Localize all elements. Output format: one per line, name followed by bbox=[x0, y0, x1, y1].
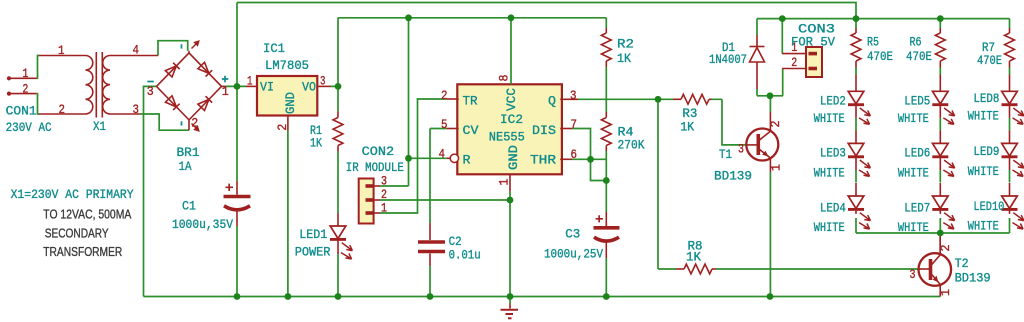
svg-text:R2: R2 bbox=[617, 37, 634, 52]
svg-text:LED3: LED3 bbox=[820, 146, 846, 161]
svg-text:7: 7 bbox=[571, 117, 578, 132]
svg-text:470E: 470E bbox=[906, 49, 932, 64]
svg-text:CON2: CON2 bbox=[362, 144, 395, 159]
svg-text:1: 1 bbox=[247, 74, 253, 89]
svg-text:LED5: LED5 bbox=[904, 94, 930, 109]
svg-text:C3: C3 bbox=[565, 227, 580, 242]
svg-text:R: R bbox=[463, 153, 471, 168]
svg-text:SECONDARY: SECONDARY bbox=[45, 227, 110, 241]
svg-text:2: 2 bbox=[791, 55, 797, 70]
svg-text:2: 2 bbox=[938, 245, 953, 252]
svg-text:6: 6 bbox=[571, 147, 578, 162]
svg-text:1: 1 bbox=[22, 66, 28, 81]
svg-text:2: 2 bbox=[191, 115, 198, 130]
svg-text:TR: TR bbox=[463, 93, 478, 108]
svg-text:1A: 1A bbox=[179, 159, 192, 174]
svg-text:4: 4 bbox=[133, 43, 140, 58]
svg-text:T2: T2 bbox=[955, 256, 969, 271]
svg-text:NE555: NE555 bbox=[489, 130, 525, 145]
svg-text:VI: VI bbox=[260, 79, 274, 94]
svg-text:2: 2 bbox=[59, 102, 66, 117]
svg-text:270K: 270K bbox=[618, 138, 645, 153]
svg-text:X1: X1 bbox=[93, 119, 106, 134]
svg-text:TO 12VAC, 500MA: TO 12VAC, 500MA bbox=[43, 208, 132, 222]
svg-text:GND: GND bbox=[506, 145, 521, 170]
svg-text:WHITE: WHITE bbox=[898, 166, 929, 181]
svg-text:X1=230V AC PRIMARY: X1=230V AC PRIMARY bbox=[11, 187, 134, 202]
svg-text:Q: Q bbox=[548, 93, 556, 108]
svg-text:3: 3 bbox=[738, 142, 744, 157]
svg-text:TRANSFORMER: TRANSFORMER bbox=[43, 245, 122, 259]
svg-text:1K: 1K bbox=[686, 249, 701, 264]
svg-text:LED8: LED8 bbox=[973, 91, 999, 106]
svg-text:VO: VO bbox=[302, 79, 316, 94]
svg-text:C1: C1 bbox=[182, 199, 196, 214]
svg-text:IR MODULE: IR MODULE bbox=[346, 160, 404, 175]
svg-text:1000u,25V: 1000u,25V bbox=[544, 247, 603, 262]
svg-text:470E: 470E bbox=[977, 53, 1002, 68]
svg-text:3: 3 bbox=[320, 74, 326, 89]
svg-text:LED4: LED4 bbox=[820, 201, 846, 216]
svg-text:1: 1 bbox=[381, 200, 387, 215]
svg-text:2: 2 bbox=[22, 81, 28, 96]
svg-text:THR: THR bbox=[530, 153, 556, 168]
svg-text:LED9: LED9 bbox=[973, 144, 999, 159]
svg-text:VCC: VCC bbox=[504, 88, 519, 111]
svg-text:1N4007: 1N4007 bbox=[709, 52, 747, 67]
svg-text:WHITE: WHITE bbox=[968, 164, 999, 179]
svg-text:CV: CV bbox=[463, 123, 479, 138]
svg-text:WHITE: WHITE bbox=[968, 109, 999, 124]
svg-text:BD139: BD139 bbox=[955, 271, 991, 286]
svg-text:LED2: LED2 bbox=[820, 94, 846, 109]
svg-text:LED10: LED10 bbox=[973, 199, 1004, 214]
svg-text:1K: 1K bbox=[617, 51, 631, 66]
svg-text:1: 1 bbox=[769, 164, 784, 171]
svg-text:LM7805: LM7805 bbox=[265, 58, 309, 73]
svg-text:CON1: CON1 bbox=[6, 103, 37, 118]
svg-text:R5: R5 bbox=[867, 35, 879, 50]
svg-text:5: 5 bbox=[441, 117, 448, 132]
svg-text:1: 1 bbox=[222, 84, 229, 99]
svg-text:470E: 470E bbox=[867, 49, 893, 64]
svg-text:T1: T1 bbox=[719, 147, 732, 162]
svg-text:1K: 1K bbox=[680, 120, 694, 135]
svg-text:1: 1 bbox=[938, 289, 953, 296]
svg-text:3: 3 bbox=[147, 84, 154, 99]
svg-text:BR1: BR1 bbox=[177, 145, 200, 160]
svg-text:3: 3 bbox=[133, 102, 140, 117]
svg-text:4: 4 bbox=[439, 147, 446, 162]
svg-text:WHITE: WHITE bbox=[898, 111, 929, 126]
svg-text:LED7: LED7 bbox=[904, 201, 930, 216]
svg-text:1000u,35V: 1000u,35V bbox=[172, 217, 233, 232]
svg-text:GND: GND bbox=[283, 92, 298, 114]
svg-text:2: 2 bbox=[275, 124, 290, 131]
svg-text:WHITE: WHITE bbox=[968, 219, 999, 234]
svg-text:WHITE: WHITE bbox=[814, 111, 845, 126]
svg-text:LED1: LED1 bbox=[299, 227, 327, 242]
svg-text:2: 2 bbox=[441, 88, 448, 103]
svg-text:WHITE: WHITE bbox=[814, 220, 845, 235]
svg-text:230V AC: 230V AC bbox=[6, 120, 52, 135]
svg-text:LED6: LED6 bbox=[904, 146, 930, 161]
svg-text:IC1: IC1 bbox=[263, 41, 285, 56]
svg-text:R6: R6 bbox=[910, 35, 922, 50]
svg-text:8: 8 bbox=[497, 75, 512, 82]
svg-text:2: 2 bbox=[768, 121, 783, 128]
svg-text:WHITE: WHITE bbox=[814, 166, 845, 181]
svg-text:1: 1 bbox=[497, 178, 512, 185]
svg-text:1K: 1K bbox=[310, 136, 322, 151]
svg-text:BD139: BD139 bbox=[714, 169, 752, 184]
svg-text:1: 1 bbox=[58, 43, 65, 58]
svg-text:0.01u: 0.01u bbox=[449, 248, 481, 263]
svg-text:3: 3 bbox=[570, 88, 577, 103]
svg-text:FOR 5V: FOR 5V bbox=[791, 35, 835, 50]
svg-text:3: 3 bbox=[910, 267, 916, 282]
svg-text:DIS: DIS bbox=[532, 123, 556, 138]
svg-text:IC2: IC2 bbox=[500, 112, 523, 127]
svg-text:POWER: POWER bbox=[295, 244, 331, 259]
svg-text:WHITE: WHITE bbox=[898, 220, 929, 235]
